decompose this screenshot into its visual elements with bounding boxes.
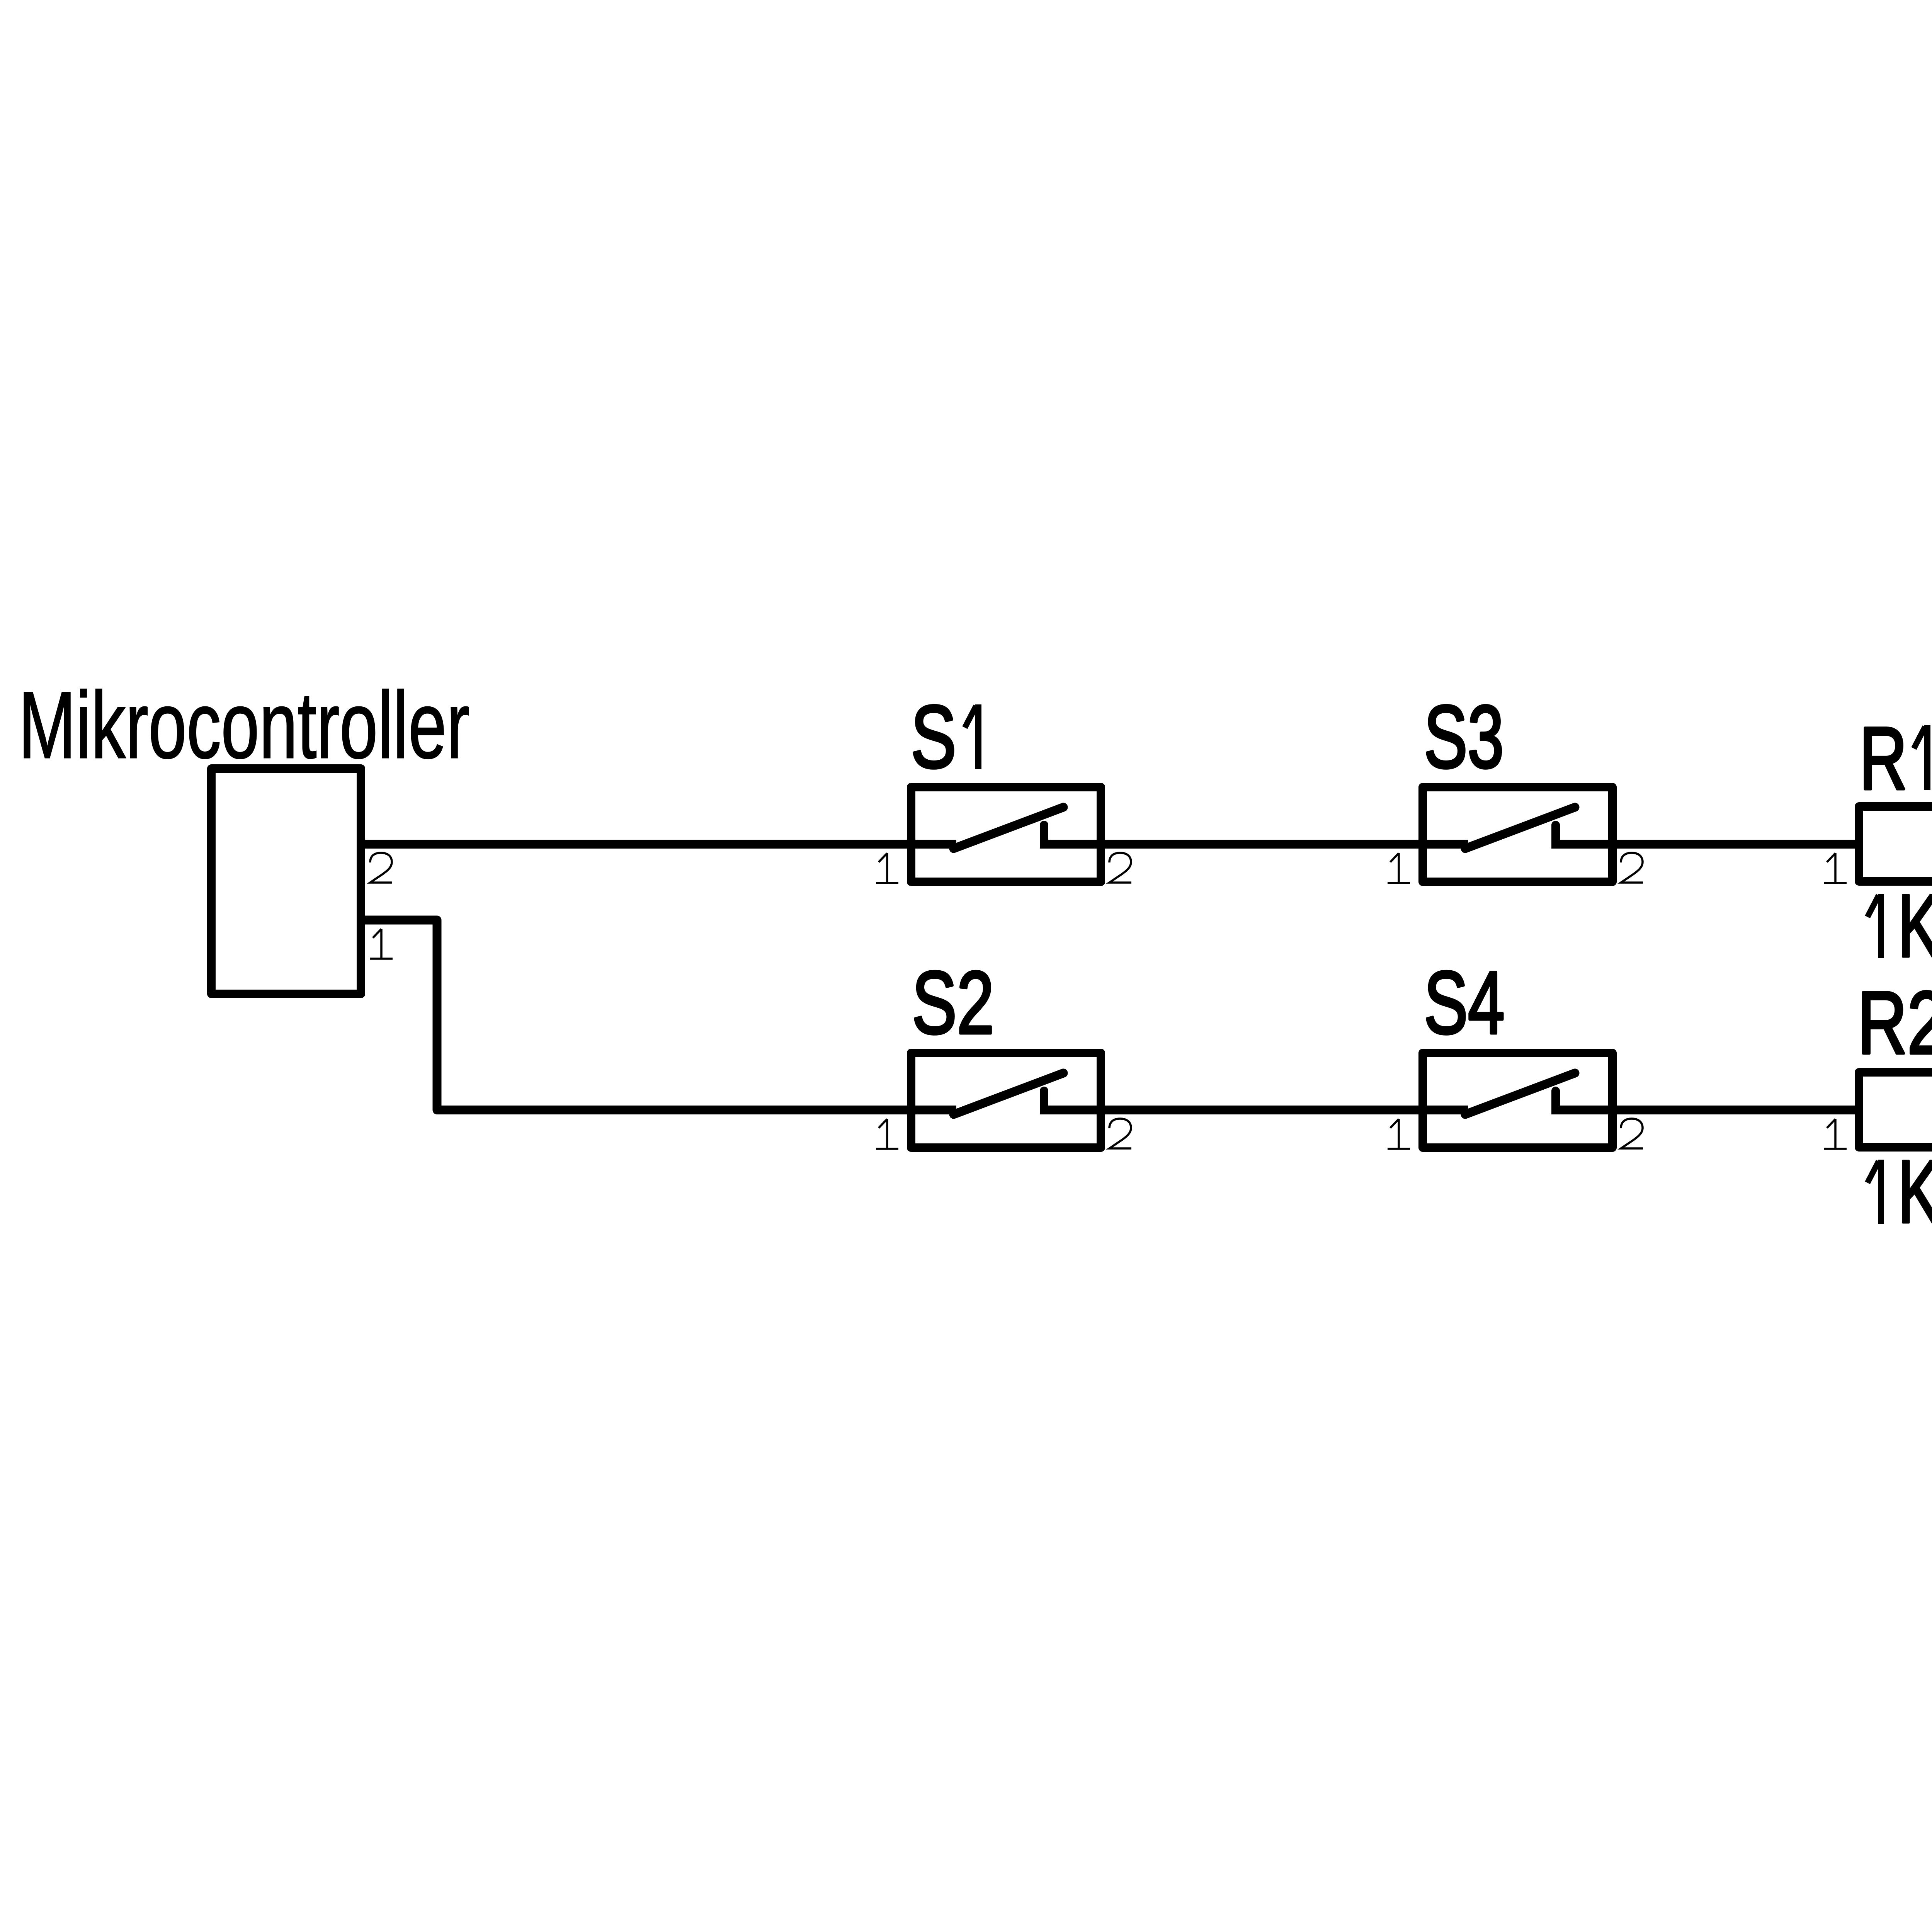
- value 1K of R1: [1867, 894, 1881, 958]
- wire S4 contact to R2: [1551, 1106, 1863, 1114]
- switch S2 box: [911, 1053, 1101, 1148]
- wire net CW: microcontroller pin 2 to S1 lever: [363, 840, 956, 849]
- switch S4 contact hook: [1551, 1091, 1560, 1108]
- wire S1 contact to S3 lever: [1040, 840, 1468, 849]
- svg-text:S: S: [911, 687, 956, 786]
- pin number 2 of S1: [1109, 853, 1131, 883]
- switch S2 lever: [954, 1073, 1063, 1114]
- svg-text:Mikrocontroller: Mikrocontroller: [19, 672, 469, 778]
- switch S3 box: [1423, 787, 1612, 882]
- switch S1 contact hook: [1040, 825, 1048, 842]
- pin number 1 of R1: [1824, 853, 1847, 883]
- pin number 1 of R2: [1824, 1119, 1847, 1149]
- pin number 1 of S2: [876, 1119, 898, 1149]
- svg-text:S3: S3: [1424, 687, 1504, 786]
- switch S4 box: [1423, 1053, 1612, 1148]
- pin number 2 of microcontroller: [370, 853, 392, 883]
- switch S1 lever: [954, 807, 1063, 849]
- switch S4 lever: [1465, 1073, 1575, 1114]
- pin number 1 of S1: [876, 853, 898, 883]
- value 1K of R2: [1867, 1160, 1881, 1224]
- wire net CCW: microcontroller pin 1 down and right to S2 lever: [363, 920, 956, 1110]
- pin number 1 of S3: [1388, 853, 1410, 883]
- svg-text:R: R: [1859, 709, 1907, 808]
- svg-text:S2: S2: [912, 953, 994, 1052]
- resistor R2 box: [1859, 1072, 1932, 1147]
- switch S2 contact hook: [1040, 1091, 1048, 1108]
- microcontroller box U1: [211, 769, 361, 994]
- svg-text:S4: S4: [1424, 953, 1505, 1052]
- pin number 2 of S4: [1621, 1119, 1643, 1148]
- switch S1 box: [911, 787, 1101, 882]
- pin number 1 of microcontroller: [370, 929, 393, 959]
- pin number 2 of S3: [1621, 853, 1643, 883]
- switch S3 contact hook: [1551, 825, 1560, 842]
- svg-text:K: K: [1898, 876, 1932, 975]
- svg-text:K: K: [1898, 1142, 1932, 1241]
- wire S3 contact to R1: [1551, 840, 1863, 849]
- wire S2 contact to S4 lever: [1040, 1106, 1468, 1114]
- pin number 2 of S2: [1109, 1119, 1131, 1148]
- pin number 1 of S4: [1388, 1119, 1410, 1149]
- resistor R1 box: [1859, 806, 1932, 881]
- svg-text:R2: R2: [1857, 973, 1932, 1072]
- switch S3 lever: [1465, 807, 1575, 849]
